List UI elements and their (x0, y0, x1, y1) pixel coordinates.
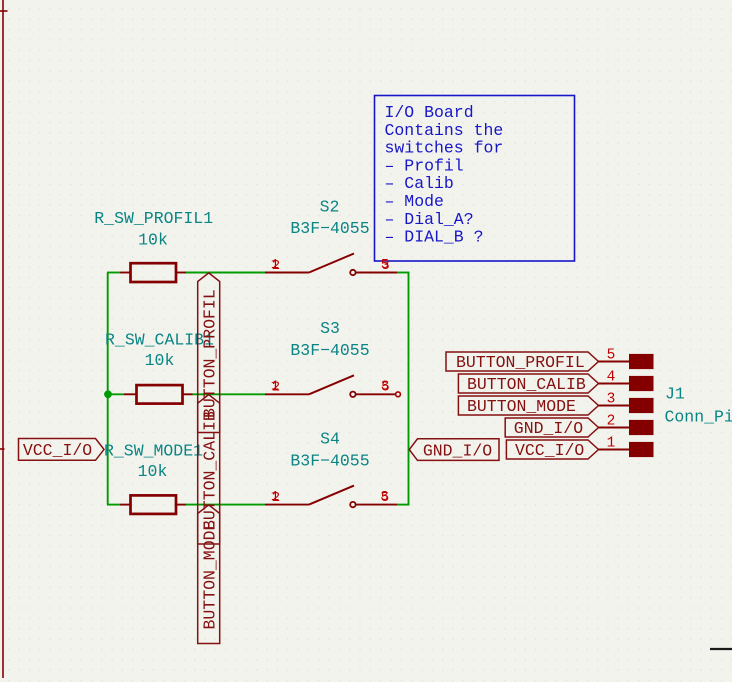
svg-text:BUTTON_MODE: BUTTON_MODE (467, 397, 576, 416)
svg-text:B3F−4055: B3F−4055 (290, 219, 369, 238)
switch S4 (265, 430, 397, 508)
global label VCC_I/O at left (19, 439, 105, 461)
connector J1 reference and value (665, 385, 732, 427)
svg-text:– Profil: – Profil (385, 156, 464, 175)
svg-text:switches for: switches for (385, 139, 504, 158)
global label GND_I/O right (505, 418, 598, 438)
svg-text:– Mode: – Mode (385, 192, 444, 211)
connector J1 pin 2 (599, 414, 654, 436)
svg-text:Conn_Pi: Conn_Pi (665, 408, 732, 427)
resistor R_SW_CALIB1 (105, 331, 214, 404)
svg-text:4: 4 (607, 370, 616, 386)
stray line bottom right (710, 648, 732, 650)
svg-text:S3: S3 (320, 319, 340, 338)
svg-text:J1: J1 (665, 385, 685, 404)
svg-text:BUTTON_CALIB: BUTTON_CALIB (201, 411, 220, 530)
resistor R_SW_PROFIL1 (94, 209, 213, 282)
svg-text:1: 1 (607, 436, 616, 452)
svg-text:10k: 10k (138, 462, 168, 481)
svg-text:10k: 10k (138, 231, 168, 250)
connector J1 pin 3 (599, 392, 654, 414)
svg-text:– DIAL_B ?: – DIAL_B ? (385, 228, 484, 247)
svg-text:3: 3 (381, 379, 389, 395)
svg-text:B3F−4055: B3F−4055 (290, 452, 369, 471)
svg-text:– Dial_A?: – Dial_A? (385, 210, 474, 229)
switch S2 (265, 198, 397, 276)
svg-text:GND_I/O: GND_I/O (514, 419, 583, 438)
junction on left bus (104, 390, 112, 398)
wire row2 segments (107, 393, 265, 395)
wire left vertical bus VCC (107, 273, 109, 505)
svg-text:2: 2 (607, 414, 616, 430)
svg-text:VCC_I/O: VCC_I/O (515, 441, 584, 460)
svg-text:B3F−4055: B3F−4055 (290, 341, 369, 360)
global label BUTTON_CALIB right (458, 374, 598, 394)
svg-text:1: 1 (271, 257, 279, 273)
sheet border frame (0, 0, 8, 678)
global label BUTTON_PROFIL right (446, 352, 599, 372)
connector J1 pin 1 (599, 436, 654, 458)
connector J1 pin 5 (599, 348, 654, 370)
svg-text:BUTTON_CALIB: BUTTON_CALIB (467, 375, 586, 394)
wire right vertical bus GND (408, 273, 410, 505)
svg-text:3: 3 (607, 392, 616, 408)
svg-text:5: 5 (381, 257, 389, 273)
text note box I/O Board (375, 96, 575, 262)
svg-text:R_SW_MODE1: R_SW_MODE1 (104, 442, 203, 461)
svg-text:1: 1 (271, 489, 279, 505)
svg-text:S4: S4 (320, 430, 340, 449)
svg-text:– Calib: – Calib (385, 174, 454, 193)
wire row1 segments (107, 272, 409, 274)
global label BUTTON_MODE vertical (198, 505, 220, 644)
svg-text:BUTTON_PROFIL: BUTTON_PROFIL (456, 353, 585, 372)
svg-text:GND_I/O: GND_I/O (423, 441, 492, 460)
global label BUTTON_MODE right (458, 396, 598, 416)
global label BUTTON_PROFIL vertical (198, 273, 220, 433)
svg-text:S2: S2 (320, 198, 340, 217)
svg-text:5: 5 (607, 348, 616, 364)
svg-text:Contains the: Contains the (385, 121, 504, 140)
svg-text:BUTTON_MODE: BUTTON_MODE (201, 520, 220, 629)
svg-text:3: 3 (380, 489, 388, 505)
svg-text:R_SW_PROFIL1: R_SW_PROFIL1 (94, 209, 213, 228)
global label GND_I/O on right bus (409, 439, 499, 461)
svg-text:I/O Board: I/O Board (385, 103, 474, 122)
resistor R_SW_MODE1 (104, 442, 203, 514)
switch S3 (265, 319, 400, 397)
connector J1 pin 4 (599, 370, 654, 392)
global label BUTTON_CALIB vertical (198, 395, 220, 544)
global label VCC_I/O right (506, 440, 598, 460)
svg-text:VCC_I/O: VCC_I/O (23, 441, 92, 460)
svg-text:10k: 10k (145, 351, 175, 370)
svg-text:1: 1 (271, 379, 279, 395)
wire row3 segments (107, 504, 409, 506)
